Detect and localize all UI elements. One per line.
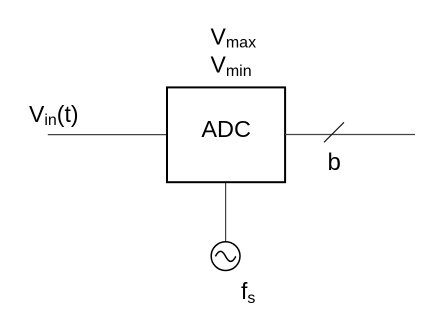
svg-text:ADC: ADC <box>201 116 251 142</box>
svg-text:fs: fs <box>241 278 255 307</box>
wire clock to ADC <box>225 183 227 242</box>
svg-text:Vin(t): Vin(t) <box>29 101 79 129</box>
svg-text:b: b <box>328 149 341 176</box>
svg-text:Vmin: Vmin <box>211 52 252 81</box>
wire output bus <box>285 134 415 136</box>
svg-text:Vmax: Vmax <box>211 24 257 52</box>
bus width slash <box>324 122 344 142</box>
oscillator fs (sampling clock source) <box>211 242 240 271</box>
ADC block U1 <box>167 87 285 182</box>
wire input Vin <box>48 134 167 136</box>
